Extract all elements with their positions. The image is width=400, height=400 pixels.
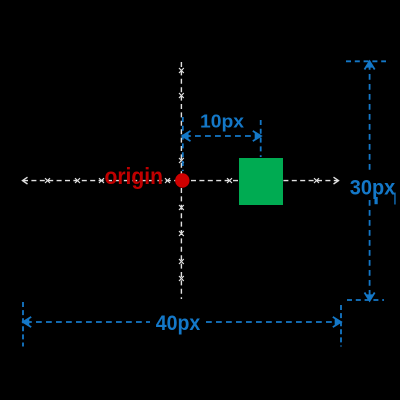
30px label p-descender stroke (375, 197, 378, 204)
30px label caret mark (394, 193, 395, 205)
10px right arrowhead (253, 131, 261, 141)
svg-text:30px: 30px (350, 176, 396, 199)
x-axis right arrowhead (334, 177, 339, 184)
green square (10px,-15px 30x30 rect) (239, 158, 283, 205)
y-axis (white dashed) (180, 62, 182, 299)
30px extension line top (346, 60, 386, 62)
x-axis (white dashed) (23, 180, 338, 182)
x-axis tick marks (45, 178, 319, 183)
40px dimension line left segment (26, 321, 150, 323)
svg-text:40px: 40px (156, 312, 201, 335)
40px left arrowhead (23, 317, 31, 327)
y-axis tick marks (179, 68, 184, 281)
40px dimension line right segment (206, 321, 338, 323)
10px dimension extension line right (blue, down to square top) (260, 120, 262, 157)
30px top arrowhead (365, 61, 375, 69)
10px left arrowhead (182, 131, 190, 141)
30px bottom arrowhead (365, 293, 375, 301)
40px extension line right (340, 305, 342, 347)
10px dimension line (185, 135, 258, 137)
40px right arrowhead (333, 317, 341, 327)
30px dimension line top segment (369, 64, 371, 173)
origin dot (175, 173, 189, 187)
svg-text:origin: origin (105, 163, 164, 189)
40px extension line left (22, 302, 24, 347)
svg-text:10px: 10px (200, 112, 244, 132)
x-axis left arrowhead (23, 177, 28, 184)
30px extension line bottom (347, 299, 384, 301)
10px dimension extension line left (blue, down to origin) (182, 117, 184, 171)
30px dimension line bottom segment (369, 200, 371, 297)
